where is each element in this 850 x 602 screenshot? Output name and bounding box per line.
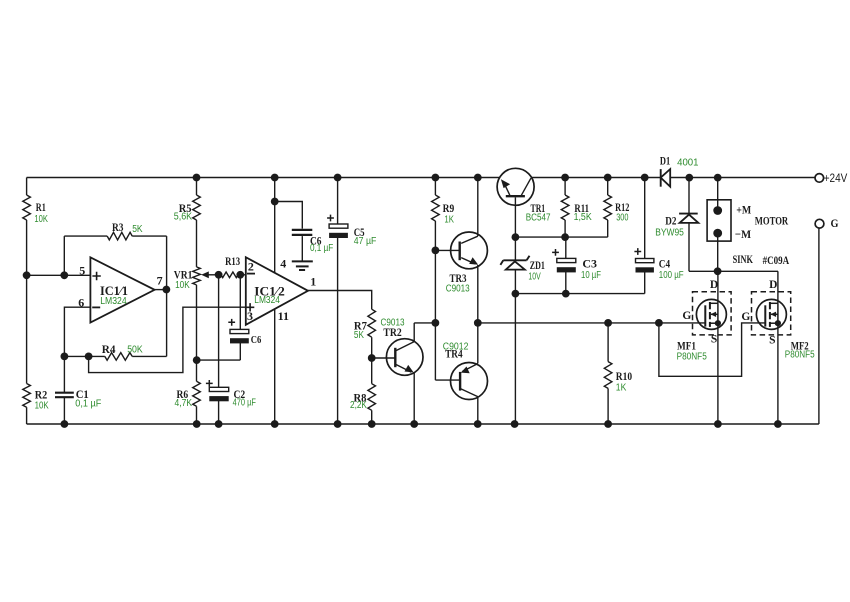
node junction pin4 line / C6 branch bbox=[271, 198, 279, 206]
node junction top rail / R5 bbox=[193, 174, 201, 182]
node junction R11 / C3 bbox=[561, 233, 569, 241]
node junction ground rail / C1 bbox=[61, 420, 69, 428]
node junction top rail / R12 bbox=[604, 174, 612, 182]
svg-text:G: G bbox=[682, 310, 691, 322]
svg-text:R1: R1 bbox=[36, 200, 46, 214]
svg-text:1,5K: 1,5K bbox=[574, 212, 592, 223]
resistor R12 bbox=[607, 178, 609, 196]
node junction ground rail / ZD1 bbox=[511, 420, 519, 428]
svg-text:C3: C3 bbox=[582, 257, 597, 271]
svg-text:50K: 50K bbox=[127, 344, 143, 355]
node junction top rail / R9 bbox=[432, 174, 440, 182]
svg-text:BYW95: BYW95 bbox=[655, 228, 684, 239]
svg-text:G: G bbox=[741, 311, 750, 323]
node junction VR1 bottom / R6 / C6 return bbox=[193, 356, 201, 364]
wire top rail right segment to +24V terminal bbox=[670, 177, 815, 179]
node junction top rail / motor +M bbox=[714, 174, 722, 182]
node junction TR2 collector on R9 column bbox=[432, 319, 440, 327]
svg-text:5K: 5K bbox=[354, 330, 364, 341]
node junction gate line / R10 bbox=[604, 319, 612, 327]
VR1 wiper arrow bbox=[204, 274, 219, 276]
svg-text:10K: 10K bbox=[175, 280, 190, 291]
svg-text:1: 1 bbox=[310, 275, 316, 289]
wire pin6 inverting input of IC1/1 bbox=[64, 307, 90, 356]
node junction ground rail / pin11 bbox=[271, 420, 279, 428]
svg-text:470 µF: 470 µF bbox=[233, 397, 256, 408]
resistor R13 bbox=[221, 272, 238, 278]
svg-text:G: G bbox=[831, 216, 839, 230]
wire gate drive line bbox=[478, 322, 705, 324]
svg-text:1K: 1K bbox=[616, 383, 627, 394]
svg-text:0,1 µF: 0,1 µF bbox=[75, 399, 101, 410]
wire zener return line to C3 and C4 bbox=[515, 293, 644, 295]
svg-text:10 µF: 10 µF bbox=[581, 270, 601, 281]
svg-text:C6: C6 bbox=[251, 334, 262, 346]
capacitor C4 (100uF) bbox=[644, 178, 646, 259]
node junction R7 / R8 / TR2 base bbox=[368, 354, 376, 362]
node junction R13 / pin2 / C6 bbox=[236, 271, 244, 279]
svg-text:R13: R13 bbox=[225, 254, 240, 268]
node junction gate line / MF2 branch bbox=[655, 319, 663, 327]
svg-text:ZD1: ZD1 bbox=[530, 258, 545, 272]
capacitor C6 (0,1uF decoupling) bbox=[275, 202, 303, 229]
capacitor C3 (10uF) bbox=[565, 237, 567, 258]
MOSFET MF2 (P80NF5) bbox=[752, 292, 791, 335]
node junction -M / D2 / MF drains bbox=[714, 267, 722, 275]
svg-text:47 µF: 47 µF bbox=[354, 236, 377, 247]
wire TR1 base / R11 / R12 bottoms bbox=[515, 236, 607, 238]
diode D1 (1N4001 series) bbox=[660, 169, 662, 187]
svg-text:R3: R3 bbox=[112, 220, 124, 234]
resistor R11 bbox=[564, 178, 566, 196]
resistor R6 bbox=[196, 360, 198, 381]
svg-text:−M: −M bbox=[735, 227, 751, 241]
svg-text:D: D bbox=[769, 279, 777, 291]
svg-text:MOTOR: MOTOR bbox=[755, 214, 789, 228]
ground symbol bbox=[292, 260, 313, 262]
wire pin5 non-inverting input of IC1/1 bbox=[27, 274, 91, 276]
wire right column to G terminal bbox=[818, 228, 820, 424]
svg-text:MF1: MF1 bbox=[677, 339, 696, 353]
capacitor C6 (electrolytic at pin3) bbox=[239, 275, 241, 330]
node junction top rail / pin4 bbox=[271, 174, 279, 182]
node junction ground rail / TR4 collector bbox=[474, 420, 482, 428]
resistor R4 (integrator feedback) bbox=[64, 355, 104, 357]
node junction top rail / R11 bbox=[561, 174, 569, 182]
node junction C3 / return line bbox=[562, 290, 570, 298]
wire IC1/1 output pin 7 bbox=[155, 289, 167, 291]
capacitor C2 (electrolytic) bbox=[218, 275, 220, 388]
motor connector block bbox=[707, 200, 731, 241]
resistor R5 bbox=[196, 178, 198, 196]
svg-text:S: S bbox=[769, 334, 775, 346]
node junction ground rail / R10 bbox=[604, 420, 612, 428]
wire R9 column down to TR4 base bbox=[434, 250, 436, 380]
svg-text:7: 7 bbox=[157, 274, 163, 288]
resistor R2 bbox=[23, 384, 31, 408]
svg-text:2,2K: 2,2K bbox=[350, 400, 367, 411]
svg-text:R9: R9 bbox=[443, 201, 455, 215]
terminal +24V bbox=[815, 174, 824, 183]
resistor R10 bbox=[607, 323, 609, 362]
wire triangle-wave to IC1/2 pin3 bbox=[89, 307, 246, 372]
transistor Q TR2 (C9013 NPN) bbox=[372, 357, 396, 359]
node junction TR3/TR4 emitters / gate line bbox=[474, 319, 482, 327]
node junction rail / D2 bbox=[685, 174, 693, 182]
svg-text:+M: +M bbox=[736, 203, 751, 217]
node junction ZD1 / C3 return line bbox=[512, 290, 520, 298]
svg-text:P80NF5: P80NF5 bbox=[677, 352, 708, 363]
node junction R9 / TR3 base bbox=[432, 247, 440, 255]
resistor R3 (positive feedback) bbox=[63, 236, 65, 275]
svg-text:TR2: TR2 bbox=[383, 325, 401, 339]
node junction triangle-wave tap bbox=[85, 353, 93, 361]
svg-text:10V: 10V bbox=[528, 271, 541, 282]
svg-text:R4: R4 bbox=[102, 342, 116, 356]
svg-text:10K: 10K bbox=[34, 214, 48, 225]
resistor R9 bbox=[434, 178, 436, 196]
svg-text:LM324: LM324 bbox=[100, 296, 127, 307]
svg-text:R10: R10 bbox=[616, 369, 632, 383]
node junction ground rail / R6 bbox=[193, 420, 201, 428]
wire pin11 to ground rail bbox=[274, 309, 276, 424]
wire bottom rail (ground) bbox=[27, 423, 819, 425]
svg-text:300: 300 bbox=[616, 213, 629, 224]
potentiometer VR1 bbox=[193, 267, 201, 285]
node junction ground rail / C2 bbox=[215, 420, 223, 428]
node junction ground rail / TR2 emitter bbox=[410, 420, 418, 428]
svg-text:BC547: BC547 bbox=[526, 213, 551, 224]
node junction top rail / C4 / D1 bbox=[641, 174, 649, 182]
svg-text:4001: 4001 bbox=[677, 157, 699, 168]
wire ZD1 column to ground rail bbox=[514, 294, 516, 424]
node junction R3 branch on pin5 wire bbox=[60, 271, 68, 279]
resistor R1 bbox=[23, 195, 31, 220]
svg-text:11: 11 bbox=[278, 309, 289, 323]
svg-text:R2: R2 bbox=[35, 388, 48, 402]
svg-text:P80NF5: P80NF5 bbox=[785, 350, 815, 361]
node junction wiper / R13 / C2 bbox=[215, 271, 223, 279]
wire pin4 power from top rail bbox=[274, 178, 276, 273]
wire TR4 base from R9 column bbox=[435, 379, 460, 381]
terminal G bbox=[815, 219, 824, 228]
svg-text:D: D bbox=[710, 279, 718, 291]
svg-text:C9013: C9013 bbox=[446, 284, 470, 295]
svg-text:2: 2 bbox=[248, 260, 254, 274]
wire drain node line bbox=[718, 270, 778, 272]
node junction left rail / pin5 bbox=[23, 271, 31, 279]
svg-text:SINK: SINK bbox=[733, 252, 754, 266]
node junction top rail / TR3 collector bbox=[474, 174, 482, 182]
wire left column bbox=[26, 178, 28, 196]
svg-text:#C09A: #C09A bbox=[763, 253, 790, 267]
wire IC1/2 output pin1 bbox=[308, 291, 372, 310]
svg-text:C4: C4 bbox=[659, 257, 670, 271]
capacitor C5 (47uF) bbox=[337, 178, 339, 225]
node junction ground rail / C5 bbox=[334, 420, 342, 428]
MOSFET MF1 (P80NF5) bbox=[693, 292, 732, 335]
op-amp U2 IC1/2 (LM324) triangle bbox=[246, 257, 308, 325]
svg-text:5: 5 bbox=[79, 264, 85, 278]
svg-text:TR4: TR4 bbox=[445, 346, 463, 360]
svg-text:S: S bbox=[711, 334, 717, 346]
svg-text:D2: D2 bbox=[665, 214, 676, 228]
op-amp U1 IC1/1 (LM324) triangle bbox=[90, 257, 154, 322]
svg-text:0,1 µF: 0,1 µF bbox=[310, 243, 333, 254]
svg-text:4: 4 bbox=[280, 257, 286, 271]
svg-text:100 µF: 100 µF bbox=[659, 270, 684, 281]
resistor R7 bbox=[368, 309, 376, 337]
wire MF2 gate branch bbox=[659, 323, 765, 376]
resistor R8 bbox=[371, 358, 373, 384]
transistor Q TR4 (C9012 PNP) bbox=[451, 363, 488, 400]
svg-text:+24V: +24V bbox=[824, 173, 848, 185]
node junction TR1 base line bbox=[512, 233, 520, 241]
wire top rail middle segment (+24V after D1) bbox=[532, 177, 661, 179]
svg-text:10K: 10K bbox=[35, 401, 49, 412]
svg-text:5K: 5K bbox=[132, 224, 143, 235]
transistor Q TR1 (BC547 NPN pass) bbox=[497, 168, 534, 205]
svg-text:5,6K: 5,6K bbox=[174, 211, 193, 222]
capacitor C1 bbox=[63, 356, 65, 392]
node output junction pin7 bbox=[163, 286, 171, 294]
diode D2 (BYW95 flyback) bbox=[688, 178, 690, 214]
svg-text:D1: D1 bbox=[660, 154, 670, 168]
zener diode ZD1 (10V) bbox=[514, 237, 516, 260]
node junction ground rail / MF1 source bbox=[714, 420, 722, 428]
node junction ground rail / R8 bbox=[368, 420, 376, 428]
svg-text:1K: 1K bbox=[444, 215, 454, 226]
node junction top rail / C5 bbox=[334, 174, 342, 182]
node junction ground rail / MF2 source bbox=[774, 420, 782, 428]
wire top rail left segment (regulated V+) bbox=[27, 177, 500, 179]
svg-text:LM324: LM324 bbox=[254, 295, 280, 306]
transistor Q TR3 (C9013 NPN) bbox=[435, 249, 459, 251]
svg-text:4,7K: 4,7K bbox=[175, 398, 193, 409]
node junction pin6 / R4 / C1 bbox=[61, 353, 69, 361]
